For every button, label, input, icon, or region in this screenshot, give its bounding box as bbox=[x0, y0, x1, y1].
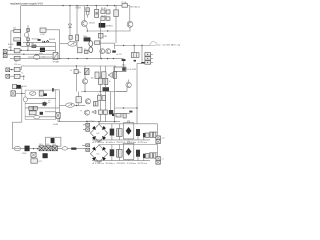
resistor R24 bbox=[99, 78, 103, 84]
potentiometer P2 bbox=[66, 103, 75, 107]
transistor Q11 dark bbox=[17, 85, 21, 88]
lamp LA2 bbox=[24, 97, 28, 102]
svg-text:regulated power supply V4.0: regulated power supply V4.0 bbox=[10, 1, 43, 5]
transistor Q14 dark on box corner bbox=[52, 88, 54, 91]
node x142 bbox=[141, 45, 142, 46]
svg-text:35V 3A out: 35V 3A out bbox=[130, 6, 140, 9]
diode D2 bbox=[27, 38, 30, 41]
channel2 mid row: resistor R19 bbox=[74, 70, 78, 74]
node x27.7 y42.3 bbox=[27, 42, 28, 43]
transformer TR1 bbox=[46, 137, 61, 146]
wire Q8 emitter bbox=[84, 84, 86, 92]
diode D1 bbox=[27, 28, 30, 31]
resistor R30 bbox=[39, 91, 43, 96]
node y50.3 x10.9 bbox=[10, 50, 11, 51]
svg-text:1k5: 1k5 bbox=[31, 43, 34, 45]
wire mains y148.7 bbox=[12, 148, 85, 150]
resistor R21 bbox=[102, 72, 106, 79]
diode D3 bbox=[27, 42, 30, 45]
wire y105.5 left bbox=[59, 105, 65, 107]
wire y122.2 bbox=[12, 121, 21, 123]
wire X6 stub down bbox=[57, 118, 59, 121]
wire y54.2 bbox=[7, 53, 53, 55]
node x123.5 y108 bbox=[123, 107, 124, 108]
wire channel1 output y45.5 bbox=[115, 45, 151, 47]
wire y57 bbox=[28, 56, 53, 58]
wire vertical right B x157.5 bbox=[157, 145, 159, 157]
node on rail x77 bbox=[76, 5, 77, 6]
svg-text:B40C3300: B40C3300 bbox=[86, 121, 95, 123]
wire row A top bbox=[99, 123, 158, 125]
svg-text:22k: 22k bbox=[13, 28, 16, 30]
node x27.7 y50.3 bbox=[27, 50, 28, 51]
resistor R35 bbox=[153, 132, 156, 137]
node x137 y108 bbox=[136, 107, 137, 108]
node on rail x114 bbox=[114, 5, 115, 6]
connector X13 bbox=[52, 146, 57, 151]
resistor R11 bbox=[14, 38, 21, 41]
wire vertical x116 bbox=[115, 6, 117, 44]
wire vertical x12.4 bbox=[11, 122, 13, 149]
node x74.6 y105.5 bbox=[76, 105, 77, 106]
bridge inside module A bbox=[126, 127, 132, 135]
capacitor C24 bbox=[94, 102, 99, 107]
resistor R33 bbox=[116, 113, 121, 117]
capacitor C16 bbox=[118, 124, 120, 129]
svg-text:1N4148: 1N4148 bbox=[49, 39, 55, 41]
diode D12 dark squiggle bbox=[46, 41, 49, 43]
wire y105.5 right bbox=[74, 105, 85, 107]
node rail x68.3 bbox=[68, 58, 69, 59]
svg-text:B40: B40 bbox=[96, 154, 99, 156]
capacitor C17 dark bbox=[136, 129, 140, 136]
wire vertical x20.7 feed bbox=[20, 6, 22, 47]
capacitor C18 bbox=[145, 133, 149, 137]
transistor Q5 bbox=[100, 49, 105, 54]
potentiometer P3 bbox=[30, 92, 36, 96]
node x21.8 y93.4 bbox=[21, 93, 22, 94]
node x23.8 y76.2 bbox=[23, 76, 24, 77]
wire y132.1 bbox=[149, 131, 157, 133]
resistor R17 bbox=[14, 67, 20, 71]
diode D6 dark bbox=[44, 93, 47, 96]
resistor R32 bbox=[34, 106, 38, 110]
node on rail x87 bbox=[87, 5, 88, 6]
svg-text:1k: 1k bbox=[109, 81, 111, 83]
wire inside y103.3 bbox=[25, 102, 42, 104]
capacitor C22 bbox=[145, 154, 149, 158]
connector XA1 bbox=[86, 123, 90, 126]
capacitor C10 dark bbox=[103, 87, 110, 91]
capacitor C14 bbox=[123, 113, 126, 118]
wire +35V top rail bbox=[21, 5, 130, 7]
transistor Q12 dark bbox=[43, 102, 47, 105]
zener stack D9 bbox=[86, 8, 89, 12]
resistor R18 bbox=[14, 74, 20, 78]
wire y113.4 bbox=[115, 112, 131, 114]
relay RE1 bbox=[34, 55, 40, 59]
connector X5 bbox=[11, 91, 16, 96]
lamp in zener stack bbox=[86, 11, 89, 15]
lamp dark LA4 bbox=[43, 153, 48, 158]
node rail x59.7 bbox=[59, 58, 60, 59]
svg-text:+12: +12 bbox=[161, 138, 164, 140]
capacitor C2 on x77 bbox=[76, 35, 79, 41]
capacitor C13b dark left bbox=[112, 114, 114, 117]
fuse F1 bbox=[14, 146, 20, 150]
connector X1 bbox=[3, 49, 7, 53]
resistor R31 bbox=[29, 106, 33, 110]
wire y46.3 bbox=[21, 45, 56, 47]
wire Q1 emitter arc bbox=[86, 26, 88, 31]
resistor R15 bbox=[78, 47, 82, 53]
wire y43.7 pot feed bbox=[60, 43, 68, 45]
connector X11 bbox=[39, 146, 44, 151]
resistor R40 on x70 bbox=[69, 35, 72, 39]
wire row A bottom bbox=[92, 139, 150, 141]
resistor R6 bbox=[106, 10, 110, 14]
connector J1 3-pin bbox=[145, 53, 151, 57]
wire inside y98.7 bbox=[27, 98, 55, 100]
node x85 y91.5 bbox=[84, 91, 85, 92]
wire stubs row A bottoms bbox=[112, 136, 144, 140]
bridge rectifier BR2 bbox=[90, 145, 107, 163]
node x87 y121.7 bbox=[86, 121, 87, 122]
resistor R22 bbox=[76, 97, 81, 103]
capacitor C21b dark bbox=[143, 154, 145, 158]
capacitor C20 bbox=[118, 145, 120, 150]
wire inside y116.8 bbox=[25, 116, 34, 118]
connector X12 bbox=[46, 146, 51, 151]
wire vertical x10.9 bbox=[10, 31, 12, 51]
cloud symbol output bbox=[150, 41, 157, 46]
capacitor C4 dark bbox=[40, 48, 45, 52]
node x76.5 y66 bbox=[76, 65, 77, 66]
transistor Q3 dark bbox=[99, 23, 105, 27]
capacitor C19 dark bbox=[111, 145, 113, 150]
wire vertical right x157.5 bbox=[157, 124, 159, 136]
wire vertical x77 bbox=[76, 6, 78, 47]
wire y93.4 bbox=[15, 92, 25, 94]
transistor Q10 bbox=[84, 110, 89, 115]
resistor R26 bbox=[104, 78, 108, 84]
resistor R25b bbox=[102, 96, 106, 101]
resistor R5 bbox=[98, 33, 103, 38]
wire vertical x142 bbox=[141, 46, 143, 64]
wire vertical x130 bbox=[129, 6, 131, 22]
node x134.2 bbox=[134, 45, 135, 46]
capacitor C6b dark dash bbox=[134, 60, 136, 62]
diode D13 dark at jog bbox=[141, 62, 144, 64]
capacitor C11 dark bbox=[109, 110, 113, 114]
svg-text:0R1: 0R1 bbox=[104, 36, 107, 38]
node rail x107.5 bbox=[107, 58, 108, 59]
svg-text:0.1uF 250V: 0.1uF 250V bbox=[127, 69, 137, 71]
connector X3 bbox=[6, 68, 10, 72]
diode D10 bbox=[92, 110, 96, 113]
svg-text:2x18V: 2x18V bbox=[53, 124, 59, 126]
capacitor C6 dark dash bbox=[122, 59, 126, 61]
wire vertical x23.8 bbox=[23, 76, 25, 80]
resistor R36 bbox=[150, 153, 153, 158]
diode D8 on x70 bbox=[69, 6, 71, 42]
svg-text:0R5: 0R5 bbox=[9, 47, 12, 49]
bridge rectifier BR1 bbox=[90, 124, 107, 142]
wire inside y111.8 bbox=[45, 111, 56, 113]
wire row B bottom bbox=[92, 160, 150, 162]
connector J3 bbox=[145, 61, 151, 65]
resistor R20 bbox=[95, 72, 99, 78]
node rail x113.4 bbox=[113, 58, 114, 59]
wire y50.3 bbox=[7, 49, 55, 51]
wire vertical x123.4 bbox=[122, 59, 124, 67]
node x23.8 y54.2 bbox=[23, 54, 24, 55]
svg-text:+35V: +35V bbox=[75, 8, 81, 10]
varistor RV1 dark bbox=[71, 148, 76, 150]
wire L bend to Q13 bbox=[116, 88, 127, 92]
diode D11 dark bbox=[38, 39, 41, 41]
tube V1 curly bbox=[89, 41, 93, 53]
node rail x77.3 bbox=[77, 58, 78, 59]
transistor Q9 bbox=[85, 99, 90, 104]
label output text bbox=[157, 44, 161, 46]
svg-text:2k: 2k bbox=[70, 70, 72, 72]
svg-text:470n: 470n bbox=[122, 65, 126, 67]
node x107.7 y31 bbox=[107, 30, 108, 31]
svg-text:4700u 100n 7812 100n 470u: 4700u 100n 7812 100n 470u bbox=[92, 142, 147, 144]
transistor Q6 bbox=[106, 49, 111, 54]
svg-text:230V~: 230V~ bbox=[22, 153, 27, 155]
module A top pin box bbox=[128, 121, 130, 123]
resistor R38 bbox=[31, 159, 38, 163]
capacitor C5 bbox=[84, 50, 88, 53]
node x21.2 y50.3 bbox=[21, 50, 22, 51]
svg-text:R4 R5: R4 R5 bbox=[101, 8, 106, 10]
wire x114.5 vertical ch1 bbox=[114, 43, 116, 49]
relay RE2 dark bbox=[112, 50, 116, 52]
svg-text:F2 1A: F2 1A bbox=[122, 1, 128, 4]
resistor R9 horizontal bbox=[40, 28, 46, 32]
svg-text:rel 12V: rel 12V bbox=[116, 54, 122, 56]
module B top pin box bbox=[128, 142, 130, 144]
node x36.4 y46.3 bbox=[36, 46, 37, 47]
connector X14 below bbox=[31, 152, 36, 157]
wire vertical x76.5 ch2 bbox=[76, 66, 78, 92]
resistor R16 horizontal bbox=[95, 41, 100, 45]
node rail x101.3 bbox=[101, 58, 102, 59]
svg-text:1k: 1k bbox=[21, 73, 23, 75]
wire stubs row B bottoms bbox=[112, 156, 144, 160]
wire y152.8 bbox=[149, 152, 157, 154]
svg-text:BD140: BD140 bbox=[8, 44, 14, 46]
resistor R25a bbox=[98, 96, 102, 101]
node x33.5 y148.7 bbox=[33, 148, 34, 149]
capacitor C21 dark bbox=[136, 150, 140, 157]
svg-text:10k: 10k bbox=[91, 77, 94, 79]
node x87.3 y31 bbox=[87, 30, 88, 31]
resistor R27 bbox=[99, 110, 103, 114]
connector X7 bbox=[156, 136, 161, 140]
svg-text:22k: 22k bbox=[78, 72, 81, 74]
connector X6 bbox=[56, 113, 60, 119]
channel2 transistor Q8 bbox=[84, 66, 86, 79]
wire jog y63.5 bbox=[137, 63, 142, 65]
wire corner to x59.4 bbox=[54, 90, 60, 122]
svg-text:1k 1k: 1k 1k bbox=[98, 94, 102, 96]
connector J2 bbox=[145, 57, 151, 61]
node on rail x107 bbox=[107, 5, 108, 6]
resistor R34 bbox=[150, 132, 153, 137]
node x123.6 bbox=[123, 45, 124, 46]
svg-text:last 30V 3A DC reg: last 30V 3A DC reg bbox=[163, 44, 182, 47]
wire vertical x100.3 bbox=[99, 20, 101, 58]
wire R22 stub bbox=[78, 92, 80, 106]
wire main rail y58.6 bbox=[10, 58, 123, 60]
bridge inside module B bbox=[126, 148, 132, 156]
connector X2 bbox=[3, 54, 7, 58]
transistor Q7 bbox=[84, 68, 89, 74]
fuse F2 on rail bbox=[122, 4, 128, 8]
wire vertical x137 bbox=[136, 64, 138, 124]
wire stubs from connectors bbox=[151, 54, 153, 62]
connector X4 bbox=[6, 74, 10, 78]
svg-text:2N3055: 2N3055 bbox=[106, 25, 114, 27]
node x100.3 y91.5 bbox=[100, 91, 101, 92]
svg-text:BD911: BD911 bbox=[21, 86, 26, 88]
wire row B top bbox=[99, 144, 158, 146]
svg-text:12V aux: 12V aux bbox=[14, 64, 21, 66]
regulator module box row A bbox=[124, 123, 134, 139]
wire y43.1 to out bbox=[100, 42, 115, 44]
node x114.7 y121.7 bbox=[114, 121, 115, 122]
resistor R13 bbox=[14, 49, 20, 53]
diode D4 assembly bbox=[53, 52, 58, 59]
regulator module box row B bbox=[124, 143, 134, 159]
capacitor C9 bbox=[113, 72, 116, 79]
resistor R3 bbox=[101, 17, 105, 21]
switch S1 dark bbox=[25, 146, 30, 152]
wire Q13 collector up bbox=[128, 80, 130, 83]
transistor Q1 bbox=[83, 6, 85, 21]
wire y76.2 bbox=[10, 75, 24, 77]
wire stub XB left bbox=[82, 144, 86, 146]
node rail x86.9 bbox=[86, 58, 87, 59]
wire stub XA left bbox=[83, 125, 86, 130]
wire vertical x110.6 ch2 bbox=[110, 92, 112, 111]
lamp LA3 bbox=[62, 147, 68, 150]
diode D7 dark bbox=[40, 112, 43, 115]
box module M1 bbox=[114, 67, 126, 71]
capacitor C23 on wire bbox=[43, 41, 45, 43]
svg-text:BD241: BD241 bbox=[89, 22, 95, 24]
svg-text:470R: 470R bbox=[40, 34, 45, 36]
wire y30.8 bbox=[11, 30, 14, 32]
lower mid cluster wire y108 bbox=[115, 107, 138, 109]
transistor Q13 bbox=[126, 82, 131, 87]
lamp LA1 bbox=[24, 33, 28, 38]
connector X8 bbox=[156, 140, 161, 144]
resistor R2 bbox=[101, 10, 105, 14]
resistor R7 bbox=[106, 17, 110, 21]
subcircuit box outline bbox=[25, 90, 56, 119]
wire y29.8 bbox=[46, 29, 60, 31]
capacitor C15 dark bbox=[111, 124, 113, 129]
resistor R37 bbox=[153, 153, 156, 158]
connector XB2 bbox=[86, 148, 90, 151]
node x37.4 y148.7 bbox=[37, 148, 38, 149]
svg-text:B40: B40 bbox=[96, 133, 99, 135]
resistor R8 bbox=[114, 10, 119, 17]
connector X9 bbox=[156, 157, 161, 161]
potentiometer P1 bbox=[68, 41, 77, 46]
wire stub bridgeA top bbox=[98, 122, 100, 125]
capacitor C12 bbox=[29, 111, 36, 115]
node on rail x70 bbox=[69, 5, 70, 6]
connector XA2 bbox=[86, 128, 90, 132]
wire emitter Q2 down to bus bbox=[87, 27, 130, 31]
node on rail x63 bbox=[62, 5, 63, 6]
svg-text:4700u 100n 7805 100n 470u: 4700u 100n 7805 100n 470u bbox=[92, 163, 147, 165]
transistor Q2 bbox=[127, 21, 133, 27]
resistor R14 bbox=[14, 56, 20, 60]
wire y69.6 bbox=[10, 69, 22, 71]
wire x114.5 vertical ch2 bbox=[114, 66, 116, 122]
node x11.6 y69.6 bbox=[11, 69, 12, 70]
svg-text:+5: +5 bbox=[161, 158, 163, 160]
wire vertical x21.2 bbox=[20, 66, 22, 70]
resistor R1 bbox=[95, 6, 97, 10]
wire vertical x55.4 bbox=[54, 42, 56, 52]
wire bottom ch2 y121.7 bbox=[58, 121, 120, 123]
wire y91.5 bbox=[81, 91, 127, 93]
bottom row B: connector XB1 bbox=[86, 144, 90, 147]
wire vertical x21.8 bbox=[21, 86, 23, 122]
capacitor C17b dark bbox=[143, 133, 145, 137]
diode D5 bbox=[108, 72, 113, 77]
wire vertical x28 bbox=[27, 25, 29, 50]
node on rail x96 bbox=[96, 5, 97, 6]
connector X10 bbox=[156, 160, 161, 164]
node x99 y121.7 bbox=[98, 121, 99, 122]
resistor R28 bbox=[104, 110, 108, 114]
wire channel2 rail y66 bbox=[21, 65, 116, 67]
channel1 mid row: resistor R12 bbox=[32, 45, 36, 48]
svg-text:T9: T9 bbox=[80, 111, 82, 113]
channel2 left cluster: resistor R29 bbox=[13, 84, 17, 88]
wire vertical x105.7 ch2 bbox=[105, 66, 107, 122]
transistor Q4 dark bbox=[17, 42, 21, 45]
wire vertical x100.3 ch2 bbox=[99, 66, 101, 122]
meter M2 bbox=[34, 115, 40, 119]
wire vertical x59.7 bbox=[59, 30, 61, 59]
svg-text:10k: 10k bbox=[15, 61, 18, 63]
capacitor C13 dark bbox=[129, 111, 132, 113]
capacitor C7 electrolytic bbox=[133, 46, 135, 53]
wire inside y107.9 bbox=[25, 107, 59, 109]
wire y42.3 bbox=[23, 41, 55, 43]
left upper cluster: resistor R10 bbox=[14, 29, 21, 32]
